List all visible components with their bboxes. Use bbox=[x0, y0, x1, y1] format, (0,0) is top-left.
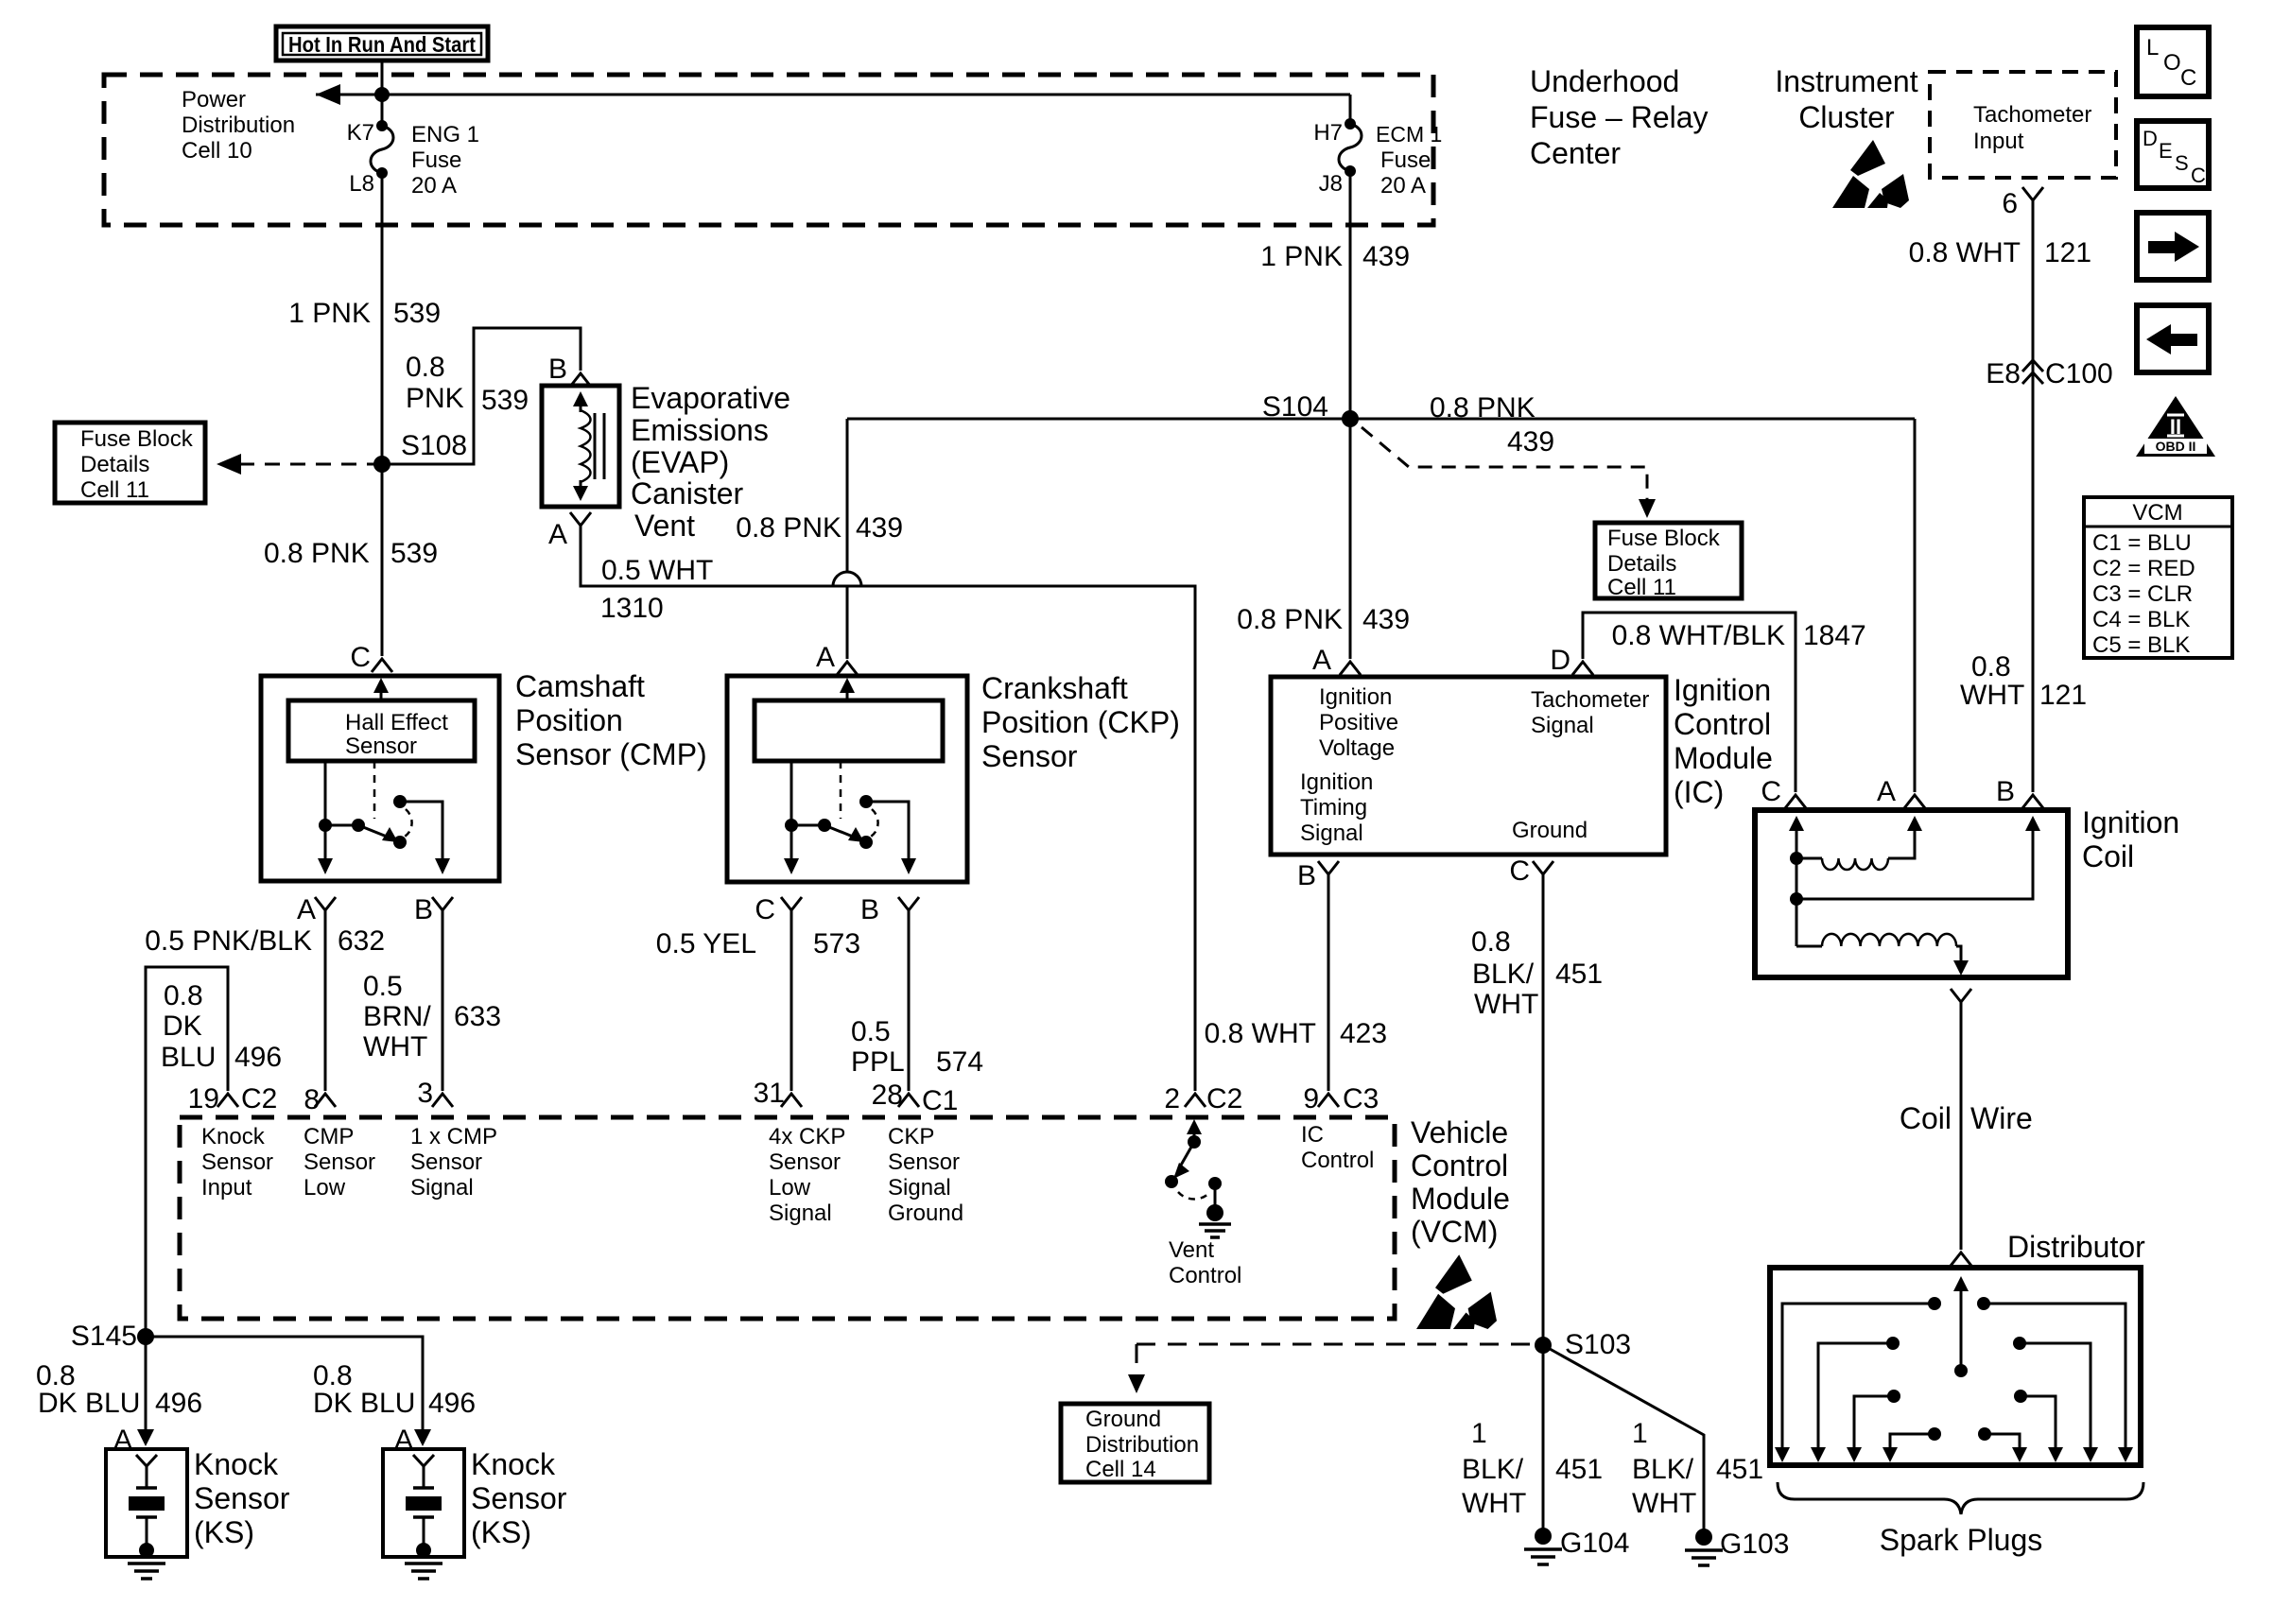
svg-text:C: C bbox=[755, 894, 775, 925]
svg-text:Ignition: Ignition bbox=[1674, 673, 1771, 707]
svg-text:Sensor: Sensor bbox=[981, 739, 1078, 773]
svg-text:G104: G104 bbox=[1560, 1528, 1629, 1559]
svg-text:Knock: Knock bbox=[194, 1447, 279, 1481]
svg-text:Signal: Signal bbox=[1531, 713, 1594, 738]
svg-text:A: A bbox=[1312, 645, 1331, 676]
svg-text:WHT: WHT bbox=[363, 1031, 427, 1063]
svg-text:Details: Details bbox=[1607, 551, 1676, 577]
svg-text:Sensor: Sensor bbox=[471, 1481, 567, 1515]
svg-text:Signal: Signal bbox=[769, 1201, 832, 1226]
svg-text:Module: Module bbox=[1411, 1182, 1510, 1216]
svg-text:1: 1 bbox=[1632, 1418, 1648, 1449]
svg-text:K7: K7 bbox=[347, 120, 374, 146]
svg-text:1 x CMP: 1 x CMP bbox=[410, 1124, 497, 1149]
svg-text:539: 539 bbox=[481, 385, 529, 416]
svg-text:Signal: Signal bbox=[888, 1175, 951, 1201]
svg-text:(IC): (IC) bbox=[1674, 775, 1724, 809]
svg-text:451: 451 bbox=[1716, 1454, 1763, 1485]
svg-text:O: O bbox=[2163, 50, 2181, 76]
svg-text:Coil: Coil bbox=[2082, 839, 2134, 873]
svg-text:ECM 1: ECM 1 bbox=[1376, 122, 1442, 147]
svg-text:OBD II: OBD II bbox=[2156, 439, 2196, 454]
svg-text:Control: Control bbox=[1169, 1263, 1241, 1288]
svg-text:0.8 WHT/BLK: 0.8 WHT/BLK bbox=[1612, 620, 1785, 651]
svg-text:2: 2 bbox=[1164, 1083, 1180, 1114]
svg-text:0.8: 0.8 bbox=[164, 980, 203, 1011]
svg-text:439: 439 bbox=[1362, 241, 1410, 272]
svg-text:Cell 10: Cell 10 bbox=[182, 138, 252, 164]
svg-text:439: 439 bbox=[1507, 426, 1554, 458]
svg-text:496: 496 bbox=[155, 1388, 202, 1419]
svg-text:WHT: WHT bbox=[1474, 989, 1538, 1020]
svg-text:Fuse – Relay: Fuse – Relay bbox=[1530, 100, 1709, 134]
svg-text:(EVAP): (EVAP) bbox=[631, 445, 729, 479]
svg-text:423: 423 bbox=[1340, 1018, 1387, 1049]
svg-text:19: 19 bbox=[188, 1083, 219, 1114]
svg-text:Cell 11: Cell 11 bbox=[80, 477, 149, 503]
svg-text:Spark Plugs: Spark Plugs bbox=[1880, 1523, 2043, 1557]
svg-text:Cell 14: Cell 14 bbox=[1085, 1457, 1156, 1482]
svg-text:0.8 PNK: 0.8 PNK bbox=[1430, 392, 1536, 423]
svg-text:1310: 1310 bbox=[600, 593, 664, 624]
svg-text:C1 = BLU: C1 = BLU bbox=[2092, 530, 2192, 556]
svg-text:Position (CKP): Position (CKP) bbox=[981, 705, 1180, 739]
svg-text:Control: Control bbox=[1411, 1149, 1508, 1183]
svg-text:4x CKP: 4x CKP bbox=[769, 1124, 845, 1149]
svg-text:Camshaft: Camshaft bbox=[515, 669, 645, 703]
svg-text:121: 121 bbox=[2044, 237, 2091, 268]
svg-text:BLK/: BLK/ bbox=[1462, 1454, 1524, 1485]
svg-text:G103: G103 bbox=[1720, 1529, 1789, 1560]
svg-text:Tachometer: Tachometer bbox=[1531, 687, 1649, 713]
svg-text:Control: Control bbox=[1301, 1148, 1374, 1173]
svg-text:A: A bbox=[1877, 776, 1896, 807]
svg-text:Cluster: Cluster bbox=[1798, 100, 1895, 134]
svg-text:0.8 PNK: 0.8 PNK bbox=[264, 538, 370, 569]
svg-text:451: 451 bbox=[1555, 959, 1603, 990]
svg-text:Ground: Ground bbox=[1512, 818, 1588, 843]
svg-text:451: 451 bbox=[1555, 1454, 1603, 1485]
svg-text:PNK: PNK bbox=[406, 383, 464, 414]
svg-text:CMP: CMP bbox=[304, 1124, 354, 1149]
svg-text:0.8: 0.8 bbox=[406, 352, 445, 383]
svg-text:539: 539 bbox=[393, 298, 441, 329]
svg-text:B: B bbox=[414, 894, 433, 925]
svg-text:C: C bbox=[1761, 776, 1781, 807]
svg-text:B: B bbox=[548, 354, 567, 385]
svg-text:3: 3 bbox=[417, 1078, 433, 1109]
svg-text:573: 573 bbox=[813, 928, 860, 959]
svg-text:B: B bbox=[1996, 776, 2015, 807]
svg-text:0.8: 0.8 bbox=[1471, 926, 1511, 958]
svg-text:0.5 PNK/BLK: 0.5 PNK/BLK bbox=[145, 925, 312, 957]
svg-text:E: E bbox=[2159, 139, 2173, 163]
svg-text:A: A bbox=[113, 1425, 132, 1456]
svg-text:Sensor: Sensor bbox=[410, 1149, 482, 1175]
svg-text:C: C bbox=[2191, 164, 2206, 187]
svg-text:Knock: Knock bbox=[201, 1124, 266, 1149]
svg-text:Knock: Knock bbox=[471, 1447, 556, 1481]
svg-text:31: 31 bbox=[754, 1078, 785, 1109]
svg-text:Position: Position bbox=[515, 703, 623, 737]
svg-text:Canister: Canister bbox=[631, 476, 744, 510]
svg-text:Fuse: Fuse bbox=[411, 147, 461, 173]
svg-text:Timing: Timing bbox=[1300, 795, 1367, 821]
svg-text:Ground: Ground bbox=[888, 1201, 963, 1226]
svg-text:Fuse: Fuse bbox=[1380, 147, 1431, 173]
svg-text:A: A bbox=[816, 642, 835, 673]
svg-text:Signal: Signal bbox=[410, 1175, 474, 1201]
svg-text:B: B bbox=[860, 894, 879, 925]
svg-text:Details: Details bbox=[80, 452, 149, 477]
svg-text:Wire: Wire bbox=[1970, 1101, 2033, 1135]
svg-text:Sensor: Sensor bbox=[201, 1149, 273, 1175]
svg-text:C5 = BLK: C5 = BLK bbox=[2092, 632, 2190, 658]
svg-text:Voltage: Voltage bbox=[1319, 735, 1395, 761]
svg-text:Sensor: Sensor bbox=[769, 1149, 841, 1175]
svg-text:J8: J8 bbox=[1319, 171, 1343, 197]
svg-text:S145: S145 bbox=[71, 1321, 137, 1352]
svg-text:0.5 WHT: 0.5 WHT bbox=[601, 555, 713, 586]
svg-text:C: C bbox=[1509, 855, 1530, 887]
svg-text:ENG 1: ENG 1 bbox=[411, 122, 479, 147]
svg-text:Low: Low bbox=[304, 1175, 346, 1201]
svg-text:Sensor: Sensor bbox=[194, 1481, 290, 1515]
svg-text:Module: Module bbox=[1674, 741, 1773, 775]
svg-text:II: II bbox=[2170, 415, 2181, 439]
svg-text:S103: S103 bbox=[1565, 1329, 1631, 1360]
svg-text:CKP: CKP bbox=[888, 1124, 934, 1149]
svg-text:DK BLU: DK BLU bbox=[38, 1388, 140, 1419]
svg-text:439: 439 bbox=[856, 512, 903, 544]
svg-text:BRN/: BRN/ bbox=[363, 1001, 431, 1032]
svg-text:0.8 PNK: 0.8 PNK bbox=[1237, 604, 1343, 635]
svg-text:D: D bbox=[1550, 645, 1570, 676]
svg-text:IC: IC bbox=[1301, 1122, 1324, 1148]
svg-text:Sensor: Sensor bbox=[304, 1149, 375, 1175]
svg-text:Positive: Positive bbox=[1319, 710, 1398, 735]
svg-text:Evaporative: Evaporative bbox=[631, 381, 790, 415]
svg-text:D: D bbox=[2143, 127, 2158, 150]
svg-text:Control: Control bbox=[1674, 707, 1771, 741]
svg-text:C4 = BLK: C4 = BLK bbox=[2092, 607, 2190, 632]
svg-text:539: 539 bbox=[390, 538, 438, 569]
svg-text:121: 121 bbox=[2039, 680, 2087, 711]
svg-text:6: 6 bbox=[2002, 188, 2018, 219]
svg-text:(KS): (KS) bbox=[471, 1515, 531, 1549]
svg-text:Distribution: Distribution bbox=[182, 112, 295, 138]
svg-text:0.5: 0.5 bbox=[363, 971, 403, 1002]
svg-text:1 PNK: 1 PNK bbox=[288, 298, 371, 329]
svg-text:BLU: BLU bbox=[161, 1042, 216, 1073]
svg-text:0.8 WHT: 0.8 WHT bbox=[1909, 237, 2021, 268]
svg-text:Input: Input bbox=[201, 1175, 252, 1201]
svg-text:DK BLU: DK BLU bbox=[313, 1388, 415, 1419]
svg-text:PPL: PPL bbox=[851, 1046, 905, 1078]
svg-text:C: C bbox=[2180, 65, 2196, 91]
svg-text:Sensor (CMP): Sensor (CMP) bbox=[515, 737, 707, 771]
svg-text:20 A: 20 A bbox=[411, 173, 457, 199]
svg-text:L: L bbox=[2146, 35, 2159, 60]
svg-text:Distributor: Distributor bbox=[2007, 1230, 2145, 1264]
svg-text:C: C bbox=[350, 642, 371, 673]
svg-text:C100: C100 bbox=[2045, 358, 2113, 389]
svg-text:Underhood: Underhood bbox=[1530, 64, 1679, 98]
svg-text:1 PNK: 1 PNK bbox=[1260, 241, 1343, 272]
svg-text:Instrument: Instrument bbox=[1775, 64, 1917, 98]
svg-text:A: A bbox=[394, 1425, 413, 1456]
svg-text:496: 496 bbox=[428, 1388, 476, 1419]
svg-text:WHT: WHT bbox=[1632, 1488, 1696, 1519]
svg-text:Fuse Block: Fuse Block bbox=[80, 426, 194, 452]
svg-text:Input: Input bbox=[1973, 129, 2024, 154]
svg-text:Power: Power bbox=[182, 87, 246, 112]
svg-text:8: 8 bbox=[304, 1084, 320, 1115]
svg-text:0.5 YEL: 0.5 YEL bbox=[656, 928, 756, 959]
svg-text:Ignition: Ignition bbox=[2082, 805, 2179, 839]
svg-text:WHT: WHT bbox=[1960, 680, 2024, 711]
svg-text:9: 9 bbox=[1303, 1083, 1319, 1114]
svg-text:DK: DK bbox=[163, 1011, 202, 1042]
svg-text:S: S bbox=[2175, 151, 2189, 175]
svg-text:S108: S108 bbox=[401, 430, 467, 461]
svg-text:0.8: 0.8 bbox=[1971, 651, 2011, 682]
svg-text:633: 633 bbox=[454, 1001, 501, 1032]
svg-text:Hall Effect: Hall Effect bbox=[345, 710, 448, 735]
svg-text:Center: Center bbox=[1530, 136, 1621, 170]
svg-text:A: A bbox=[297, 894, 316, 925]
svg-text:C2 = RED: C2 = RED bbox=[2092, 556, 2195, 581]
svg-text:496: 496 bbox=[234, 1042, 282, 1073]
svg-text:0.5: 0.5 bbox=[851, 1016, 891, 1047]
svg-text:C1: C1 bbox=[922, 1085, 958, 1116]
svg-text:(KS): (KS) bbox=[194, 1515, 254, 1549]
svg-text:1847: 1847 bbox=[1803, 620, 1866, 651]
svg-text:Coil: Coil bbox=[1900, 1101, 1952, 1135]
svg-text:(VCM): (VCM) bbox=[1411, 1215, 1498, 1249]
svg-text:Low: Low bbox=[769, 1175, 811, 1201]
svg-text:574: 574 bbox=[936, 1046, 983, 1078]
svg-text:S104: S104 bbox=[1262, 391, 1328, 423]
svg-text:28: 28 bbox=[872, 1080, 903, 1111]
svg-text:Ground: Ground bbox=[1085, 1407, 1161, 1432]
svg-text:VCM: VCM bbox=[2132, 500, 2182, 526]
svg-text:Vehicle: Vehicle bbox=[1411, 1115, 1508, 1149]
svg-text:632: 632 bbox=[338, 925, 385, 957]
svg-text:20 A: 20 A bbox=[1380, 173, 1426, 199]
svg-text:Cell 11: Cell 11 bbox=[1607, 575, 1676, 600]
svg-text:Signal: Signal bbox=[1300, 821, 1363, 846]
svg-text:1: 1 bbox=[1471, 1418, 1487, 1449]
svg-text:Distribution: Distribution bbox=[1085, 1432, 1199, 1458]
svg-text:L8: L8 bbox=[349, 171, 374, 197]
svg-text:Fuse Block: Fuse Block bbox=[1607, 526, 1721, 551]
svg-text:WHT: WHT bbox=[1462, 1488, 1526, 1519]
svg-text:Emissions: Emissions bbox=[631, 413, 769, 447]
svg-text:B: B bbox=[1297, 860, 1316, 891]
svg-text:Sensor: Sensor bbox=[888, 1149, 960, 1175]
svg-text:0.8 PNK: 0.8 PNK bbox=[736, 512, 842, 544]
svg-text:439: 439 bbox=[1362, 604, 1410, 635]
svg-text:C3 = CLR: C3 = CLR bbox=[2092, 581, 2193, 607]
svg-text:Hot In Run And Start: Hot In Run And Start bbox=[288, 32, 476, 57]
svg-text:Ignition: Ignition bbox=[1319, 684, 1392, 710]
svg-text:Ignition: Ignition bbox=[1300, 769, 1373, 795]
svg-text:A: A bbox=[548, 519, 567, 550]
svg-text:BLK/: BLK/ bbox=[1632, 1454, 1694, 1485]
svg-text:H7: H7 bbox=[1313, 120, 1343, 146]
svg-text:C2: C2 bbox=[1206, 1083, 1242, 1114]
svg-text:Sensor: Sensor bbox=[345, 734, 417, 759]
svg-text:Tachometer: Tachometer bbox=[1973, 102, 2091, 128]
svg-text:C3: C3 bbox=[1343, 1083, 1379, 1114]
svg-text:E8: E8 bbox=[1986, 358, 2021, 389]
svg-text:Vent: Vent bbox=[1169, 1237, 1214, 1263]
svg-text:Vent: Vent bbox=[634, 509, 695, 543]
svg-text:Crankshaft: Crankshaft bbox=[981, 671, 1128, 705]
svg-text:C2: C2 bbox=[241, 1083, 277, 1114]
svg-text:0.8 WHT: 0.8 WHT bbox=[1205, 1018, 1316, 1049]
svg-text:BLK/: BLK/ bbox=[1472, 959, 1535, 990]
